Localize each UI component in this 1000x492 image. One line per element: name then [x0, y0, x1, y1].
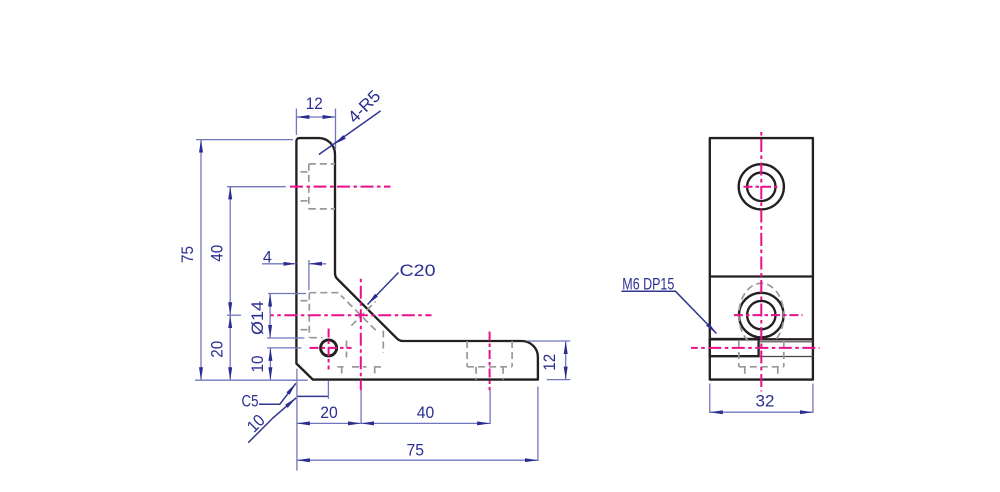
svg-text:40: 40 — [208, 245, 227, 262]
centerline M6 hole horizontal front — [310, 347, 352, 349]
hidden corner vertical hole front view — [346, 341, 348, 358]
centerline upper hole front — [290, 186, 391, 188]
svg-text:10: 10 — [248, 356, 267, 373]
dimension 32 extension lines — [709, 384, 711, 414]
leader 10 bottom rotated — [248, 398, 296, 443]
svg-text:12: 12 — [540, 354, 559, 371]
dimension 12 right extension top — [527, 340, 570, 342]
side view hidden chamfer ellipse — [739, 283, 784, 341]
dimension 20 bottom — [297, 422, 361, 424]
side view upper hole horizontal centerline — [744, 186, 780, 188]
svg-text:M6 DP15: M6 DP15 — [622, 274, 674, 293]
dimension 10 left — [269, 348, 271, 380]
side view lower hole horizontal centerline — [734, 314, 803, 316]
centerline corner hole horizontal front — [271, 314, 432, 316]
extension line x75 bottom — [537, 387, 539, 462]
side view thin leg edges right of M6 hole — [759, 341, 813, 343]
hidden corner horizontal hole front view — [308, 293, 310, 338]
dimension 4 left arrow — [262, 263, 296, 265]
side view hidden vertical hole walls — [738, 341, 740, 367]
extension line x20 bottom — [360, 390, 362, 424]
dimension 10 bottom small line — [297, 395, 329, 397]
dimension 20 left — [229, 315, 231, 380]
extension line x0 bottom — [296, 369, 298, 471]
extension line hole x10 — [327, 381, 329, 399]
hidden hole intersection X diagonals — [341, 296, 377, 332]
svg-text:75: 75 — [178, 246, 197, 263]
side view lower hole circle — [747, 301, 775, 329]
dimension 4 right arrow — [309, 263, 326, 265]
dimension 75 left extension top — [196, 139, 293, 141]
svg-text:20: 20 — [207, 341, 226, 358]
side view M6 hole rectangle — [710, 339, 759, 356]
side view chamfer top edge — [710, 275, 813, 277]
dimension 12 top extension lines — [295, 109, 297, 136]
side view vertical centerline — [760, 129, 762, 392]
svg-text:C20: C20 — [400, 261, 436, 280]
dimension 40 left extension at y60 — [227, 186, 286, 188]
leader C5 — [259, 383, 296, 404]
hidden upper counterbore hole front view — [309, 163, 335, 165]
dimension dia14 extension bottom — [267, 337, 305, 339]
extension line x60 bottom — [489, 390, 491, 424]
leader 4-R5 — [319, 111, 381, 155]
dimension 40 left tick at chamfer centerline — [227, 314, 241, 316]
dimension 4 extension line — [308, 260, 310, 290]
side view leg top edge — [710, 338, 813, 340]
centerline right hole front — [489, 332, 491, 391]
front view L-bracket outline — [296, 138, 538, 380]
dimension 40 left — [229, 186, 231, 315]
svg-text:C5: C5 — [242, 392, 259, 411]
M6 tapped hole circle front view — [321, 340, 337, 356]
side view M6 horizontal centerline — [691, 347, 820, 349]
side view lower counterbore circle — [739, 293, 784, 338]
dimension 10 left extension at hole center — [267, 347, 302, 349]
dimension 75 left — [200, 140, 202, 381]
dimension 12 right extension bottom — [547, 379, 571, 381]
leader C20 — [368, 273, 399, 305]
dimension 40 bottom — [361, 422, 490, 424]
dimension 75 left extension bottom — [195, 379, 308, 381]
dimension 12 top — [296, 116, 335, 118]
dimension 12 right — [565, 341, 567, 380]
svg-text:40: 40 — [417, 403, 435, 422]
svg-text:75: 75 — [407, 440, 425, 459]
svg-text:20: 20 — [320, 403, 338, 422]
svg-text:4: 4 — [263, 247, 272, 266]
svg-text:12: 12 — [306, 94, 323, 113]
svg-text:32: 32 — [756, 392, 775, 411]
dimension 32 — [710, 411, 813, 413]
dimension dia14 — [269, 294, 271, 339]
side view upper hole circle — [747, 173, 775, 201]
centerline corner hole vertical front — [360, 278, 362, 391]
svg-text:Ø14: Ø14 — [248, 301, 267, 335]
centerline M6 hole vertical front — [328, 329, 330, 370]
dimension 75 bottom — [297, 459, 538, 461]
side view upper counterbore circle — [739, 164, 784, 209]
dimension dia14 extension top — [268, 293, 306, 295]
hidden right counterbore hole front view — [466, 341, 468, 367]
side view rectangle outline — [710, 138, 813, 380]
leader M6 DP15 — [622, 291, 717, 333]
